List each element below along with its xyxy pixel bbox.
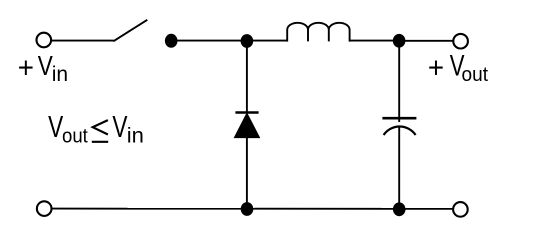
- bottom rail wire: [52, 208, 454, 210]
- capacitor C1 curved bottom plate: [384, 126, 416, 135]
- terminal output top-right: [453, 34, 468, 49]
- terminal input top-left: [37, 33, 52, 48]
- svg-text:V: V: [48, 110, 63, 144]
- inductor L1: [287, 23, 349, 42]
- svg-text:out: out: [62, 126, 88, 148]
- wire capacitor C1 to bottom rail: [398, 127, 400, 209]
- bottom rail junction dot at capacitor: [393, 202, 406, 216]
- wire node A to node B: [171, 40, 247, 42]
- node A junction dot: [165, 34, 178, 48]
- node C junction dot (output node): [393, 34, 406, 48]
- capacitor C1 top plate: [382, 117, 416, 120]
- terminal return bottom-right: [453, 202, 468, 217]
- wire node C down to capacitor C1: [398, 41, 400, 122]
- svg-text:+: +: [428, 52, 444, 85]
- svg-text:in: in: [127, 124, 144, 147]
- wire input to switch: [51, 40, 114, 42]
- wire node B to inductor: [247, 40, 288, 42]
- switch S1 (open blade): [113, 20, 147, 42]
- diode D1 triangle (anode below, pointing up): [234, 113, 259, 137]
- wire node B down to diode D1: [246, 41, 248, 112]
- wire node C to output terminal: [399, 40, 453, 42]
- svg-text:+: +: [18, 52, 34, 85]
- wire diode D1 to bottom rail: [246, 137, 248, 209]
- svg-text:V: V: [112, 110, 127, 144]
- node B junction dot (diode cathode node): [241, 34, 254, 48]
- bottom rail junction dot at diode: [241, 202, 254, 216]
- terminal return bottom-left: [37, 201, 52, 216]
- diode D1 cathode bar: [235, 111, 258, 114]
- label Vout <= Vin : less-or-equal symbol: [92, 120, 108, 142]
- svg-text:out: out: [462, 63, 489, 86]
- svg-text:in: in: [52, 63, 68, 86]
- wire inductor to node C: [350, 40, 399, 42]
